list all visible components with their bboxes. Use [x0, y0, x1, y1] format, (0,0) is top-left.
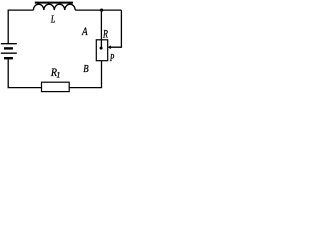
- battery plate long lower: [1, 52, 17, 54]
- svg-text:B: B: [83, 63, 89, 75]
- wire top-right segment: [75, 9, 121, 11]
- svg-text:1: 1: [56, 71, 60, 80]
- inductor L core bar: [35, 2, 73, 4]
- wire top-left segment: [8, 10, 33, 43]
- wiper arrowhead P: [108, 46, 111, 49]
- wire rheostat bottom terminal: [69, 61, 101, 88]
- node junction dot on top wire: [100, 9, 103, 12]
- battery plate short thick lower: [4, 57, 13, 59]
- node wiper contact dot: [100, 47, 103, 50]
- battery plate short thick: [4, 47, 13, 49]
- svg-text:R: R: [102, 26, 108, 40]
- wire rheostat top terminal: [100, 10, 102, 48]
- wire bottom-left segment: [8, 59, 41, 87]
- inductor L coil: [33, 4, 75, 10]
- wire right side down to wiper: [110, 10, 121, 47]
- svg-text:P: P: [109, 53, 114, 64]
- svg-text:A: A: [81, 26, 88, 38]
- battery plate long top: [1, 43, 17, 45]
- resistor R1 body: [42, 82, 70, 91]
- rheostat R body: [96, 40, 107, 61]
- svg-text:L: L: [50, 15, 55, 26]
